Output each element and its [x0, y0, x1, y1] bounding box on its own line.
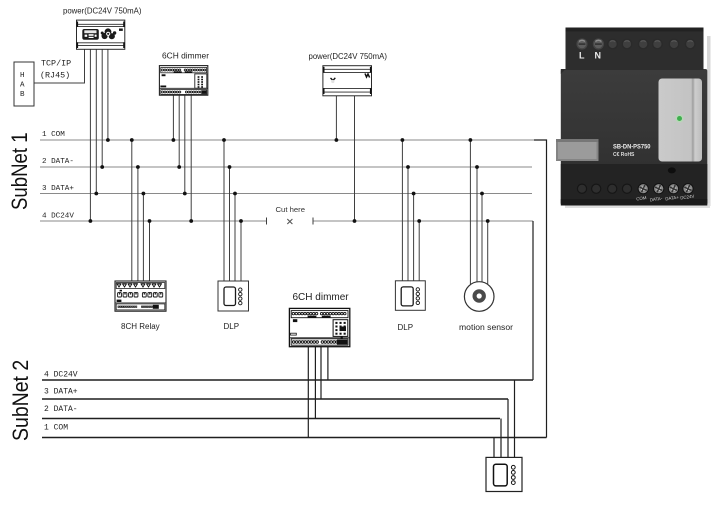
svg-text:6CH dimmer: 6CH dimmer	[293, 292, 350, 303]
label DLP 2	[398, 323, 414, 332]
label power(DC24V 750mA) for PS1	[63, 7, 142, 16]
wire COM link SubNet1 to SubNet2 (right side)	[534, 140, 547, 438]
svg-text:Cut here: Cut here	[276, 205, 306, 214]
power supply PS1 (DC24V 750mA)	[77, 20, 125, 49]
net label SubNet 1	[9, 132, 33, 210]
label 6CH dimmer for U2	[293, 292, 350, 303]
svg-text:8CH Relay: 8CH Relay	[121, 322, 160, 331]
wire motion sensor pin1 to COM	[469, 138, 473, 285]
wire DLP2 pin4 to DC24V	[417, 219, 421, 281]
svg-text:B: B	[20, 91, 25, 99]
label 8CH Relay	[121, 322, 160, 331]
svg-text:A: A	[20, 82, 25, 90]
label DLP 1	[224, 322, 240, 331]
svg-text:2 DATA-: 2 DATA-	[44, 405, 78, 414]
bus SubNet2 line 2 DATA-	[42, 405, 500, 419]
svg-text:power(DC24V 750mA): power(DC24V 750mA)	[309, 52, 388, 61]
6CH dimmer U1	[159, 66, 207, 96]
bus SubNet1 line 4 DC24V (left segment, cut)	[40, 213, 267, 222]
wire DLP2 pin1 to COM	[401, 138, 405, 281]
wire PS2 pin2 to DC24V	[353, 96, 357, 223]
wire relay pin1 to COM	[130, 138, 134, 281]
svg-text:(RJ45): (RJ45)	[40, 71, 70, 81]
svg-text:L: L	[579, 51, 585, 61]
label motion sensor	[459, 322, 513, 332]
wire dimmer U2 pin2 to SubNet2 DATA-	[314, 347, 316, 419]
bus SubNet2 line 1 COM	[42, 424, 547, 438]
wire DLP1 pin3 to DATA+	[233, 192, 237, 281]
wire DLP3 pin4 to SubNet2 DC24V	[514, 380, 516, 457]
8CH relay module	[115, 281, 166, 311]
svg-text:SubNet 2: SubNet 2	[9, 360, 33, 441]
wire PS2 pin1 to COM	[335, 96, 339, 142]
wire PS1 pin2 to DC24V	[89, 49, 93, 223]
DLP panel 2	[395, 281, 425, 311]
svg-text:SubNet 1: SubNet 1	[9, 132, 33, 210]
svg-text:2 DATA-: 2 DATA-	[42, 158, 74, 166]
svg-text:SB-DN-PS750: SB-DN-PS750	[613, 145, 651, 151]
label Cut here	[276, 205, 306, 214]
DLP panel 1	[218, 281, 249, 311]
svg-text:4 DC24V: 4 DC24V	[44, 371, 78, 380]
svg-text:1 COM: 1 COM	[44, 424, 68, 433]
svg-text:TCP/IP: TCP/IP	[41, 59, 71, 69]
wire relay pin3 to DATA+	[142, 192, 146, 281]
wire dimmer U1 pin1 to COM	[172, 95, 176, 142]
wire relay pin4 to DC24V	[148, 219, 152, 281]
svg-text:3 DATA+: 3 DATA+	[42, 185, 74, 193]
wire DLP2 pin3 to DATA+	[412, 192, 416, 281]
motion sensor	[464, 282, 494, 312]
wire dimmer U2 pin4 to SubNet2 DC24V	[327, 347, 329, 380]
label TCP/IP (RJ45)	[40, 59, 71, 81]
label power(DC24V 750mA) for PS2	[309, 52, 388, 61]
wire DLP3 pin2 to SubNet2 DATA-	[500, 419, 502, 458]
wire DLP3 pin3 to SubNet2 DATA+	[507, 399, 509, 457]
wire PS1 pin1 to HAB gateway (elbow)	[34, 49, 85, 83]
svg-text:H: H	[20, 72, 25, 80]
svg-text:4 DC24V: 4 DC24V	[42, 213, 74, 221]
bus SubNet2 line 4 DC24V	[42, 371, 533, 381]
svg-text:motion sensor: motion sensor	[459, 322, 513, 332]
wire motion sensor pin3 to DATA+	[480, 192, 484, 283]
bus SubNet2 line 3 DATA+	[42, 388, 508, 400]
wire PS1 pin4 to DATA-	[100, 49, 104, 169]
DLP panel 3 (SubNet2)	[486, 457, 522, 491]
svg-text:DLP: DLP	[224, 322, 240, 331]
wire PS1 pin3 to DATA+	[94, 49, 98, 195]
bus SubNet1 line 2 DATA-	[40, 158, 532, 167]
svg-text:6CH dimmer: 6CH dimmer	[162, 51, 209, 61]
wire motion sensor pin4 to DC24V	[486, 219, 490, 285]
wire DLP1 pin1 to COM	[222, 138, 226, 281]
wire DLP1 pin4 to DC24V	[239, 219, 243, 281]
net label SubNet 2	[9, 360, 33, 441]
wire PS1 pin5 to COM	[106, 49, 110, 142]
cut here X symbol	[287, 219, 292, 224]
bus SubNet1 line 1 COM	[40, 131, 534, 140]
wire dimmer U2 pin1 to SubNet2 COM	[307, 347, 309, 438]
wire dimmer U1 pin2 to DATA-	[177, 95, 181, 169]
TCP/IP gateway box HAB	[14, 62, 34, 106]
wire dimmer U1 pin4 to DC24V	[189, 95, 193, 223]
wire dimmer U1 pin3 to DATA+	[183, 95, 187, 195]
bus SubNet1 line 3 DATA+	[40, 185, 532, 194]
svg-text:1 COM: 1 COM	[42, 131, 65, 139]
svg-text:3 DATA+: 3 DATA+	[44, 388, 78, 397]
svg-text:C€ RoHS: C€ RoHS	[613, 152, 635, 158]
svg-text:N: N	[595, 51, 602, 61]
wire DLP3 pin1 to SubNet2 COM	[493, 438, 495, 458]
svg-text:power(DC24V 750mA): power(DC24V 750mA)	[63, 7, 142, 16]
cut mark ticks on DC24V line	[267, 218, 314, 225]
wire DLP1 pin2 to DATA-	[228, 165, 232, 281]
wire dimmer U2 pin3 to SubNet2 DATA+	[320, 347, 322, 399]
photo: SB-DN-PS750 power supply module	[556, 28, 711, 209]
wire DLP2 pin2 to DATA-	[406, 165, 410, 281]
label 6CH dimmer for U1	[162, 51, 209, 61]
bus SubNet1 line 4 DC24V (right segment)	[313, 220, 533, 222]
wire DC24V link SubNet1 right segment down to SubNet2	[532, 221, 534, 380]
wire motion sensor pin2 to DATA-	[475, 165, 479, 282]
power supply PS2 (DC24V 750mA)	[323, 66, 372, 96]
svg-text:DLP: DLP	[398, 323, 414, 332]
wire relay pin2 to DATA-	[136, 165, 140, 281]
6CH dimmer U2 (SubNet2)	[289, 308, 349, 346]
